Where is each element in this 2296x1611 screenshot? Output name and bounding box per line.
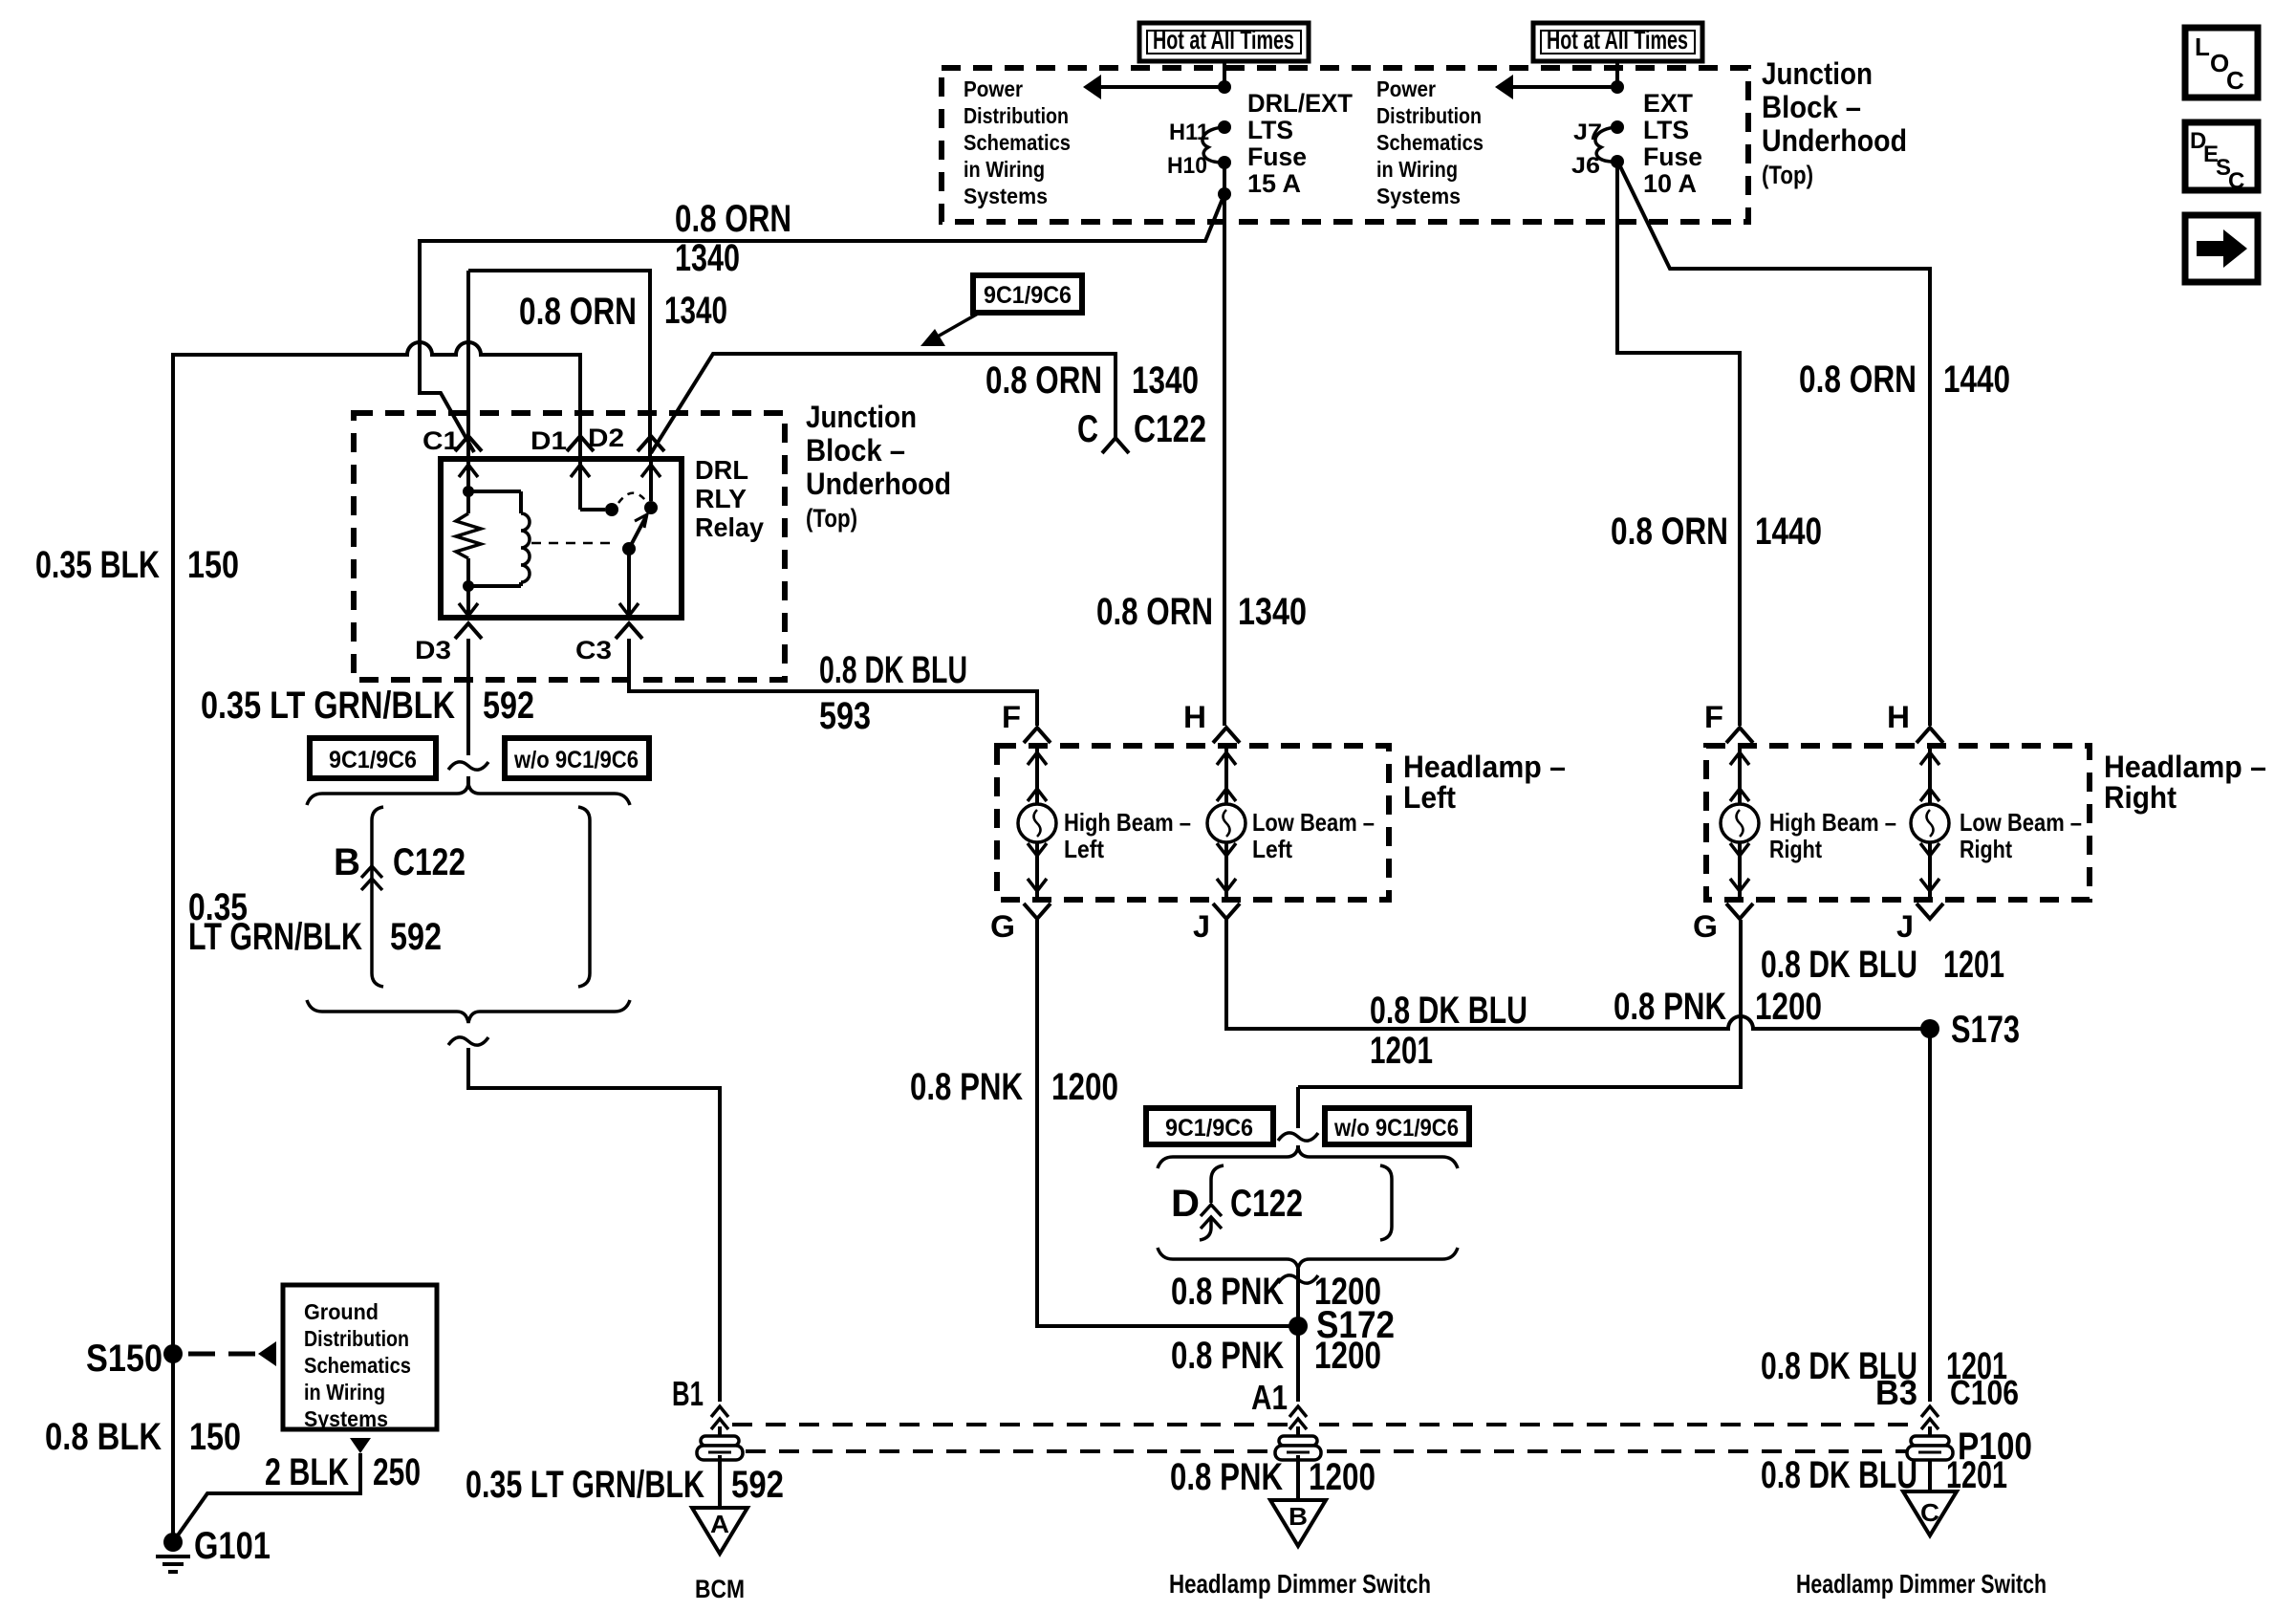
svg-text:B3: B3 [1875,1373,1917,1412]
svg-text:150: 150 [187,544,239,586]
brace top (center assembly) [1158,1147,1458,1168]
headlamp left pin H [1213,728,1240,743]
ground distribution schematics box [283,1285,437,1429]
headlamp right dashed box [1706,746,2090,900]
relay DRL RLY box [441,459,682,618]
svg-text:0.35 LT GRN/BLK: 0.35 LT GRN/BLK [466,1464,704,1506]
svg-text:0.8 PNK: 0.8 PNK [1170,1456,1283,1498]
svg-text:Hot at All Times: Hot at All Times [1547,25,1688,54]
svg-text:Power: Power [1376,76,1436,101]
svg-text:C: C [2226,66,2244,95]
triangle connector A BCM [692,1508,747,1554]
low beam left bulb [1224,747,1228,804]
headlamp right pin H [1917,728,1943,743]
wire P100 to dimmer switch C [1928,1460,1932,1491]
svg-text:C1: C1 [422,426,459,455]
reference box DESC [2185,122,2258,190]
svg-text:Low Beam –: Low Beam – [1252,808,1375,837]
connector bracket right (w/o option) [578,807,590,987]
bulkhead dashed line lower [746,1449,1271,1453]
svg-text:Right: Right [1769,835,1822,863]
wire from Hot box to fuse 2 [1615,61,1619,87]
svg-text:0.35 LT GRN/BLK: 0.35 LT GRN/BLK [201,685,455,727]
relay pin D2 branch [638,436,664,451]
svg-text:C: C [1077,408,1098,450]
wire D3 to connector options [466,639,470,755]
svg-text:in Wiring: in Wiring [1376,157,1458,182]
svg-text:S150: S150 [86,1338,162,1380]
svg-text:G: G [990,909,1015,944]
svg-text:Left: Left [1403,780,1456,815]
svg-text:0.8 ORN: 0.8 ORN [675,198,791,240]
svg-text:Schematics: Schematics [304,1353,411,1378]
arrow from ground distribution box [350,1438,371,1453]
fuse EXT LTS 10 A [1611,120,1624,134]
svg-text:J: J [1896,909,1914,944]
label box Hot at All Times (left) [1139,23,1309,61]
svg-text:0.8 DK BLU: 0.8 DK BLU [1370,990,1527,1032]
relay pin D3 connector [455,623,482,639]
svg-text:D2: D2 [588,424,624,452]
svg-text:0.8 ORN: 0.8 ORN [1611,511,1728,553]
svg-text:C122: C122 [1230,1183,1303,1225]
reference box next-page arrow [2185,215,2258,282]
ground G101 [163,1533,183,1552]
svg-text:0.8 BLK: 0.8 BLK [45,1416,162,1458]
headlamp left pin G [1024,903,1051,919]
svg-text:2 BLK: 2 BLK [265,1451,349,1493]
relay pin C1 connector [455,436,482,451]
splice S172 [1289,1317,1308,1336]
wire 0.8 ORN 1440 J6 to F right [1617,162,1740,726]
wire 0.8 ORN 1340 D2 to C122 pin C [651,354,1116,453]
wire S173 to connector C106 B3 [1928,1029,1932,1402]
svg-text:A1: A1 [1251,1378,1288,1417]
svg-text:1200: 1200 [1755,986,1822,1028]
svg-text:1201: 1201 [1370,1030,1433,1072]
svg-text:1200: 1200 [1309,1456,1375,1498]
svg-text:A: A [710,1510,729,1538]
svg-text:0.8 ORN: 0.8 ORN [1799,359,1917,401]
headlamp right pin F [1726,728,1753,743]
svg-text:0.8 DK BLU: 0.8 DK BLU [1761,944,1917,986]
arrow to power distribution schematics 1 [1101,85,1224,89]
svg-text:C122: C122 [1134,408,1206,450]
relay pin C3 connector [616,623,642,639]
high beam left bulb [1035,747,1039,804]
svg-text:LTS: LTS [1247,116,1293,144]
svg-text:Distribution: Distribution [1376,103,1482,128]
junction block underhood (relay) dashed box [354,413,785,680]
wire 0.35 BLK 150 ground return [173,342,580,1541]
svg-text:Junction: Junction [1762,56,1873,91]
svg-text:1200: 1200 [1051,1066,1118,1108]
svg-text:Systems: Systems [304,1406,388,1431]
reference box 9C1/9C6 with arrow [973,275,1082,313]
option box 9C1/9C6 (left) [310,738,436,778]
brace bottom (left assembly) [307,1000,630,1023]
bulkhead dashed line upper [732,1423,1289,1426]
triangle connector C headlamp dimmer switch [1903,1491,1957,1535]
headlamp left dashed box [997,746,1389,900]
wire 0.8 PNK 1200 G right to connector options [1298,920,1741,1087]
wire 0.8 ORN 1440 J6 to H right [1619,164,1930,726]
wire 0.8 PNK 1200 G left to S172 [1037,920,1292,1326]
option box 9C1/9C6 (center) [1146,1108,1273,1144]
svg-text:Underhood: Underhood [806,467,951,501]
svg-text:RLY: RLY [695,484,747,513]
svg-text:C: C [1920,1498,1939,1527]
svg-text:F: F [1002,700,1021,734]
svg-text:Relay: Relay [695,512,764,542]
dashed reference arrow from S150 [188,1352,215,1357]
headlamp right pin G [1726,903,1753,919]
svg-text:C3: C3 [575,636,612,664]
svg-text:LT GRN/BLK: LT GRN/BLK [188,916,362,958]
svg-text:Headlamp –: Headlamp – [2104,750,2266,784]
wire S172 to dimmer switch B [1296,1326,1300,1402]
svg-text:Systems: Systems [1376,184,1461,208]
svg-text:15 A: 15 A [1247,169,1301,198]
svg-text:Left: Left [1252,835,1292,863]
svg-text:H11: H11 [1169,120,1209,145]
connector C106 break [1921,1406,1939,1417]
svg-text:C: C [2228,168,2244,194]
wire below fuse 1 [1223,163,1226,194]
relay switch blade [622,542,636,555]
svg-text:Hot at All Times: Hot at All Times [1153,25,1294,54]
svg-text:G: G [1693,909,1718,944]
svg-text:D3: D3 [415,636,451,664]
svg-text:S173: S173 [1951,1009,2020,1051]
svg-text:0.8 PNK: 0.8 PNK [1171,1271,1284,1313]
svg-text:1440: 1440 [1943,359,2010,401]
svg-text:1340: 1340 [664,290,727,332]
connector C122 pin B symbol [372,807,383,987]
svg-text:Power: Power [964,76,1023,101]
svg-text:C122: C122 [393,841,466,883]
svg-text:Distribution: Distribution [964,103,1069,128]
svg-text:Right: Right [2104,780,2177,815]
svg-text:D: D [1171,1183,1200,1225]
svg-text:0.8 DK BLU: 0.8 DK BLU [819,649,967,691]
svg-text:DRL/EXT: DRL/EXT [1247,89,1353,118]
svg-text:Systems: Systems [964,184,1048,208]
wire to S172 [1278,1275,1318,1283]
brace bottom (center assembly) [1158,1248,1458,1269]
svg-text:EXT: EXT [1643,89,1693,118]
relay switch to C3 pin [627,549,631,618]
svg-text:(Top): (Top) [1762,161,1813,189]
grommet left [701,1436,739,1446]
svg-text:BCM: BCM [695,1575,745,1603]
svg-text:Block –: Block – [1762,90,1861,124]
svg-text:10 A: 10 A [1643,169,1697,198]
svg-text:L: L [2195,33,2210,61]
connector break A1 [1289,1406,1307,1417]
option box w/o 9C1/9C6 (left) [505,738,649,778]
svg-text:1201: 1201 [1943,944,2004,986]
wire to BCM B1 [448,1037,488,1045]
svg-text:Underhood: Underhood [1762,123,1907,158]
wire 0.8 ORN 1340 jumper C1 to D2 [468,271,650,457]
junction block underhood (top) dashed box [942,68,1748,222]
svg-text:(Top): (Top) [806,504,857,533]
svg-text:H: H [1183,700,1206,734]
svg-text:1200: 1200 [1314,1335,1381,1377]
svg-text:DRL: DRL [695,455,748,485]
svg-text:Headlamp –: Headlamp – [1403,750,1566,784]
svg-text:Schematics: Schematics [1376,130,1484,155]
svg-text:H: H [1887,700,1910,734]
svg-text:0.8 PNK: 0.8 PNK [1171,1335,1284,1377]
svg-text:9C1/9C6: 9C1/9C6 [984,282,1072,309]
wire to dimmer switch B triangle [1296,1455,1300,1500]
brace top (left assembly) [307,784,630,805]
svg-text:J: J [1193,909,1210,944]
headlamp right pin J [1917,903,1943,919]
svg-text:w/o 9C1/9C6: w/o 9C1/9C6 [1333,1115,1459,1142]
grommet P100 [1911,1436,1949,1446]
svg-text:Block –: Block – [806,433,905,468]
svg-text:B: B [1289,1502,1308,1531]
svg-text:High Beam –: High Beam – [1064,808,1191,837]
relay coil to D3 pin [466,586,470,618]
svg-text:B: B [334,841,360,883]
splice S150 [163,1344,183,1363]
connector C122 pin D symbol [1211,1165,1224,1203]
svg-text:D1: D1 [531,426,567,455]
svg-text:Headlamp Dimmer Switch: Headlamp Dimmer Switch [1796,1569,2047,1599]
svg-text:0.8 PNK: 0.8 PNK [910,1066,1023,1108]
relay pin D1 branch [567,436,594,451]
fuse DRL/EXT LTS 15 A [1218,120,1231,134]
svg-text:Headlamp Dimmer Switch: Headlamp Dimmer Switch [1169,1569,1431,1599]
svg-text:593: 593 [819,695,871,737]
svg-text:Low Beam –: Low Beam – [1960,808,2082,837]
wire 0.35 LT GRN/BLK 592 to BCM [718,1455,722,1508]
svg-text:1440: 1440 [1755,511,1822,553]
svg-text:Ground: Ground [304,1299,379,1324]
splice S173 [1920,1019,1939,1038]
connector bracket right (center w/o option) [1380,1165,1392,1240]
wire 2 BLK 250 [175,1453,360,1539]
svg-text:0.8 ORN: 0.8 ORN [519,291,637,333]
relay coil-switch dashed link [531,542,617,545]
svg-text:Distribution: Distribution [304,1326,409,1351]
arrow to power distribution schematics 2 [1513,85,1617,89]
wire 0.8 DK BLU 593 C3 to F left [629,639,1037,726]
svg-text:J7: J7 [1573,120,1602,145]
svg-text:in Wiring: in Wiring [964,157,1045,182]
low beam right bulb [1928,747,1932,804]
svg-text:0.8 ORN: 0.8 ORN [1096,591,1213,633]
svg-text:Schematics: Schematics [964,130,1071,155]
option box w/o 9C1/9C6 (center) [1325,1108,1469,1144]
headlamp left pin F [1024,728,1051,743]
svg-text:High Beam –: High Beam – [1769,808,1896,837]
svg-text:0.8 ORN: 0.8 ORN [986,359,1102,402]
svg-text:0.8 PNK: 0.8 PNK [1614,986,1726,1028]
svg-text:9C1/9C6: 9C1/9C6 [329,747,417,773]
wire from Hot box to fuse 1 [1223,61,1226,87]
svg-text:LTS: LTS [1643,116,1689,144]
svg-text:1340: 1340 [1132,359,1199,402]
svg-text:592: 592 [483,685,534,727]
svg-text:C106: C106 [1950,1373,2019,1412]
triangle connector B headlamp dimmer switch [1270,1500,1326,1546]
label box Hot at All Times (right) [1533,23,1702,61]
svg-text:150: 150 [189,1416,241,1458]
wire into connector options center [1278,1133,1318,1141]
svg-text:592: 592 [390,916,442,958]
svg-text:Fuse: Fuse [1643,142,1702,171]
svg-text:0.35 BLK: 0.35 BLK [35,544,160,586]
svg-text:J6: J6 [1571,153,1600,179]
grommet center [1279,1436,1317,1446]
svg-text:Fuse: Fuse [1247,142,1307,171]
svg-text:w/o 9C1/9C6: w/o 9C1/9C6 [513,747,639,773]
wire 0.8 ORN 1340 fuse1 to C1 feed [420,194,1224,452]
svg-text:1340: 1340 [675,237,740,279]
svg-text:Right: Right [1960,835,2012,863]
svg-text:9C1/9C6: 9C1/9C6 [1165,1115,1253,1142]
svg-text:H10: H10 [1167,153,1207,179]
wire 0.8 ORN 1340 fuse1 to H left [1223,194,1226,726]
svg-text:0.8 DK BLU: 0.8 DK BLU [1761,1454,1917,1496]
relay switch dashed throw arc [618,493,645,503]
svg-text:250: 250 [373,1451,421,1493]
svg-text:592: 592 [731,1464,784,1506]
wire 0.8 DK BLU 1201 J left to S173 [1226,920,1924,1029]
relay coil branch [466,459,470,491]
svg-text:1340: 1340 [1238,591,1307,633]
relay resistor [466,491,470,513]
svg-text:Junction: Junction [806,400,917,434]
svg-text:Left: Left [1064,835,1104,863]
svg-text:B1: B1 [672,1374,704,1413]
svg-text:G101: G101 [194,1525,271,1567]
high beam right bulb [1738,747,1742,804]
svg-text:F: F [1704,700,1723,734]
headlamp left pin J [1213,903,1240,919]
svg-text:in Wiring: in Wiring [304,1380,385,1404]
reference box LOC [2185,28,2258,98]
